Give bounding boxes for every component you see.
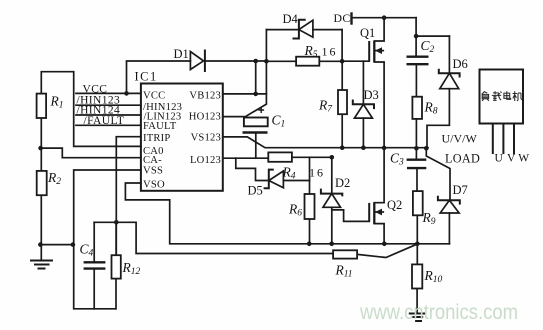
svg-text:C1: C1 [272, 113, 286, 130]
svg-text:D3: D3 [364, 88, 379, 102]
svg-text:R6: R6 [288, 202, 302, 219]
svg-text:VCC: VCC [83, 83, 108, 95]
svg-text:C2: C2 [421, 38, 435, 55]
svg-text:FAULT: FAULT [143, 121, 177, 132]
svg-text:16: 16 [322, 45, 338, 59]
svg-text:Q1: Q1 [360, 26, 375, 40]
svg-text:R1: R1 [50, 94, 64, 111]
svg-text:U/V/W: U/V/W [442, 132, 478, 146]
svg-text:CA-: CA- [143, 155, 162, 166]
svg-text:D1: D1 [174, 47, 189, 61]
svg-text:VB123: VB123 [189, 91, 221, 102]
svg-text:ITRIP: ITRIP [143, 133, 170, 144]
svg-text:VSS: VSS [143, 166, 163, 177]
svg-text:R11: R11 [335, 263, 353, 280]
svg-text:LOAD: LOAD [445, 152, 480, 166]
svg-text:R12: R12 [122, 260, 141, 277]
svg-text:/FAULT: /FAULT [84, 115, 125, 127]
svg-text:LO123: LO123 [190, 155, 221, 166]
svg-text:D2: D2 [335, 176, 350, 190]
svg-text:HO123: HO123 [189, 111, 221, 122]
svg-text:www.cntronics.com: www.cntronics.com [359, 300, 518, 324]
svg-text:R10: R10 [424, 268, 443, 285]
svg-text:D4: D4 [283, 12, 299, 26]
svg-text:IC1: IC1 [135, 70, 158, 84]
svg-text:VCC: VCC [143, 91, 165, 102]
svg-text:R2: R2 [47, 170, 61, 187]
svg-text:R7: R7 [318, 98, 333, 115]
svg-text:VS123: VS123 [191, 132, 221, 143]
svg-text:V: V [507, 153, 516, 165]
svg-text:D6: D6 [453, 57, 468, 71]
svg-text:R5: R5 [304, 43, 318, 60]
svg-text:16: 16 [309, 166, 325, 180]
svg-text:D7: D7 [453, 183, 468, 197]
svg-text:W: W [518, 153, 529, 165]
svg-text:R9: R9 [422, 210, 436, 227]
svg-text:C4: C4 [80, 242, 94, 259]
svg-text:C3: C3 [390, 151, 404, 168]
svg-text:R4: R4 [282, 165, 296, 182]
svg-text:VSO: VSO [143, 179, 165, 190]
svg-text:R8: R8 [424, 100, 438, 117]
svg-text:U: U [495, 153, 504, 165]
svg-text:Q2: Q2 [387, 198, 402, 212]
svg-text:DC: DC [334, 11, 351, 25]
svg-text:D5: D5 [248, 184, 263, 198]
